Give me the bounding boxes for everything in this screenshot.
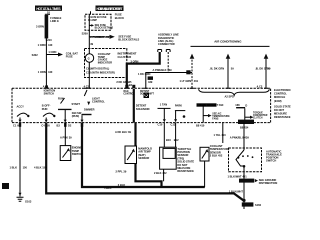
svg-text:SOLID STATE: SOLID STATE bbox=[274, 104, 291, 108]
svg-text:1 BLK: 1 BLK bbox=[10, 165, 18, 169]
svg-text:S160: S160 bbox=[255, 203, 262, 207]
svg-text:2 PPL 39: 2 PPL 39 bbox=[116, 170, 127, 174]
svg-text:S209: S209 bbox=[82, 31, 89, 35]
svg-text:(RUN): (RUN) bbox=[72, 114, 79, 118]
svg-text:4 C2: 4 C2 bbox=[84, 85, 90, 89]
svg-text:ACCY: ACCY bbox=[17, 105, 25, 109]
svg-text:CLUTCH: CLUTCH bbox=[253, 118, 263, 120]
svg-text:DIMMER: DIMMER bbox=[84, 108, 95, 112]
svg-text:G: G bbox=[88, 56, 90, 60]
svg-text:CLUSTER: CLUSTER bbox=[118, 55, 133, 59]
svg-text:MEASURE: MEASURE bbox=[274, 112, 287, 116]
svg-text:ELECTRONIC: ELECTRONIC bbox=[274, 88, 291, 92]
svg-text:461: 461 bbox=[194, 79, 199, 83]
svg-text:2 BLK: 2 BLK bbox=[118, 183, 126, 187]
svg-text:1 BLK/WHT: 1 BLK/WHT bbox=[229, 190, 244, 194]
svg-text:1 YEL 410: 1 YEL 410 bbox=[214, 133, 227, 137]
svg-text:RUN: RUN bbox=[42, 107, 48, 111]
svg-text:S210: S210 bbox=[46, 38, 53, 42]
svg-text:BLOCK DETAILS: BLOCK DETAILS bbox=[95, 27, 114, 30]
svg-text:2 BLK 452: 2 BLK 452 bbox=[210, 154, 223, 158]
svg-text:B3: B3 bbox=[57, 123, 61, 127]
svg-text:FUSIBLE: FUSIBLE bbox=[50, 16, 61, 20]
svg-text:FANS: FANS bbox=[212, 117, 219, 120]
svg-text:DISTRIBUTION: DISTRIBUTION bbox=[259, 181, 278, 185]
svg-text:INDICATOR: INDICATOR bbox=[98, 60, 112, 64]
svg-text:150: 150 bbox=[23, 165, 28, 169]
svg-text:168: 168 bbox=[235, 103, 240, 107]
svg-text:2 BLK 452: 2 BLK 452 bbox=[154, 171, 167, 175]
svg-text:SOLENOID: SOLENOID bbox=[136, 107, 150, 111]
svg-text:1 BLK/WHT 451: 1 BLK/WHT 451 bbox=[228, 175, 248, 179]
svg-text:1 ORN: 1 ORN bbox=[38, 70, 46, 74]
svg-text:CONTROL: CONTROL bbox=[123, 94, 135, 96]
svg-text:C13: C13 bbox=[171, 123, 176, 127]
svg-text:SWITCH: SWITCH bbox=[44, 92, 54, 96]
svg-text:MODULE: MODULE bbox=[274, 95, 286, 99]
svg-text:BLOCK: BLOCK bbox=[115, 16, 124, 20]
svg-text:AIR CONDITIONING: AIR CONDITIONING bbox=[214, 39, 242, 43]
svg-text:439: 439 bbox=[148, 80, 153, 84]
svg-text:RESISTANCE: RESISTANCE bbox=[177, 169, 194, 173]
svg-text:CONTROL: CONTROL bbox=[274, 92, 287, 96]
svg-text:4 BLK 150: 4 BLK 150 bbox=[34, 166, 47, 170]
svg-text:440: 440 bbox=[48, 43, 53, 47]
svg-text:D: D bbox=[245, 104, 247, 108]
svg-text:4 BLK: 4 BLK bbox=[104, 186, 112, 190]
svg-text:A PNK/BLU 439: A PNK/BLU 439 bbox=[230, 135, 250, 139]
svg-text:ENGINE COOLANT FAN: ENGINE COOLANT FAN bbox=[197, 104, 223, 107]
svg-text:LINK E: LINK E bbox=[50, 19, 59, 23]
svg-text:HOT IN RUN, BULB TEST OR START: HOT IN RUN, BULB TEST OR START bbox=[97, 7, 124, 11]
svg-text:A PNK/BLK 439: A PNK/BLK 439 bbox=[153, 68, 173, 72]
svg-text:.8L DK GRN: .8L DK GRN bbox=[210, 67, 225, 71]
svg-text:SWITCH: SWITCH bbox=[72, 152, 82, 156]
svg-text:CONNECTOR: CONNECTOR bbox=[158, 42, 175, 46]
svg-text:B12: B12 bbox=[174, 138, 179, 142]
svg-text:G103: G103 bbox=[25, 199, 32, 203]
svg-text:SENSOR: SENSOR bbox=[138, 156, 149, 160]
svg-text:3 ORN: 3 ORN bbox=[131, 59, 139, 63]
svg-text:1 ORN: 1 ORN bbox=[38, 43, 46, 47]
svg-text:1 ORN: 1 ORN bbox=[48, 50, 56, 54]
svg-text:DO NOT: DO NOT bbox=[274, 108, 285, 112]
svg-text:PARK: PARK bbox=[175, 104, 182, 108]
svg-text:(ECM): (ECM) bbox=[274, 99, 282, 103]
svg-text:A PNK 39: A PNK 39 bbox=[60, 136, 72, 140]
svg-text:B10: B10 bbox=[166, 138, 171, 142]
svg-text:FUSE: FUSE bbox=[66, 55, 73, 59]
svg-text:440: 440 bbox=[48, 70, 53, 74]
svg-text:A DK BLU 39: A DK BLU 39 bbox=[115, 130, 131, 134]
svg-text:SWITCH: SWITCH bbox=[266, 159, 276, 163]
svg-text:START: START bbox=[72, 102, 81, 106]
svg-text:D2: D2 bbox=[68, 123, 72, 127]
svg-text:RUN: RUN bbox=[58, 97, 64, 101]
svg-text:A2 SPD: A2 SPD bbox=[225, 95, 234, 99]
svg-text:B4: B4 bbox=[129, 83, 133, 87]
svg-text:S302: S302 bbox=[32, 53, 39, 57]
svg-text:1 TAN: 1 TAN bbox=[160, 103, 167, 107]
svg-text:HOT AT ALL TIMES: HOT AT ALL TIMES bbox=[36, 7, 61, 11]
svg-text:3 ORN: 3 ORN bbox=[36, 25, 44, 29]
svg-text:1 LT GRN: 1 LT GRN bbox=[180, 79, 192, 83]
svg-text:C13 (WITH INDICATOR): C13 (WITH INDICATOR) bbox=[86, 70, 115, 74]
svg-text:RESISTANCE: RESISTANCE bbox=[274, 115, 291, 119]
svg-text:B8 410: B8 410 bbox=[196, 123, 205, 127]
svg-text:CONTROL: CONTROL bbox=[92, 100, 105, 104]
svg-text:BLOCK DETAILS: BLOCK DETAILS bbox=[118, 38, 139, 42]
svg-text:C10: C10 bbox=[158, 123, 163, 127]
